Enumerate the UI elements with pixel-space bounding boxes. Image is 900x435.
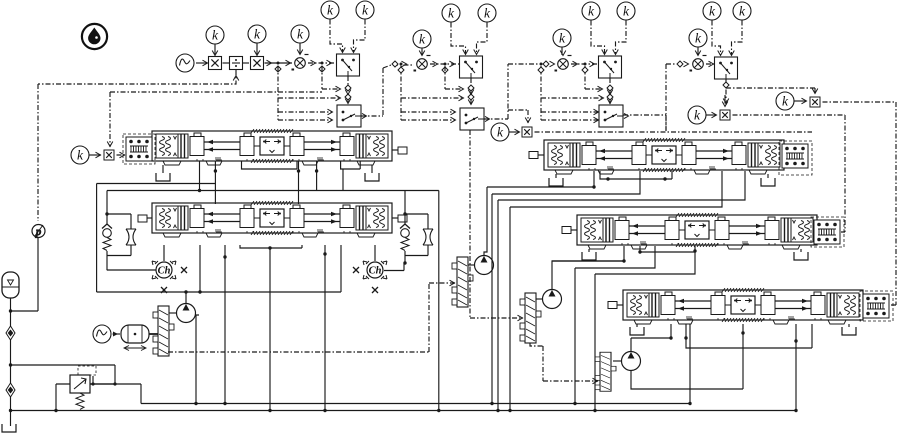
wire P3 delivery up xyxy=(552,261,624,290)
pump P4 xyxy=(622,352,641,371)
pump P3 xyxy=(543,290,562,309)
x mark Ch2 bottom xyxy=(372,287,378,293)
wire Ch1 top to bank2 xyxy=(163,245,165,261)
wire B2 output down to pump controls xyxy=(484,64,539,119)
selector C1 xyxy=(599,56,622,78)
wire bank5 suction x743 xyxy=(742,324,744,333)
wire P4 suction down xyxy=(631,333,743,389)
wire k5 to A1 xyxy=(354,20,366,53)
bus line 1 xyxy=(141,403,690,405)
wire orifice loop xyxy=(107,214,131,270)
multiplier X5 bank4 pilot xyxy=(720,110,730,120)
pilot dashed frame bank5 xyxy=(860,291,893,321)
gain k9 xyxy=(553,29,571,47)
wire xyxy=(243,62,250,64)
x mark Ch1 bottom xyxy=(161,287,167,293)
wire manifold3 to P3 xyxy=(536,298,543,300)
gain k8 xyxy=(478,4,496,22)
wire xyxy=(196,62,207,64)
net: MF3 to MF4 pilot xyxy=(530,343,598,381)
relief valve RV1 xyxy=(70,375,90,393)
net: supply to relief xyxy=(11,365,116,384)
net: tap B2 feed xyxy=(445,66,463,89)
wire k18 to X6 xyxy=(795,100,807,102)
gain k12 xyxy=(689,29,707,47)
wire manifold2 to P2 xyxy=(468,264,475,266)
pump P2 xyxy=(475,256,494,275)
wire bank1 portE to header B xyxy=(342,169,344,191)
summer S4 xyxy=(690,56,707,72)
net: tap C2 feed xyxy=(585,66,602,89)
net: X6 output to bank5 solenoid via right edge xyxy=(823,102,897,305)
multiplier X6 bank5 pilot xyxy=(810,97,820,107)
wire k2 to X2 xyxy=(256,44,258,55)
wire bank5 port down x796 xyxy=(795,324,797,411)
wire k10 to C1 xyxy=(591,21,605,55)
pilot dashed frame bank3 xyxy=(779,141,812,175)
wire bank5 right drain xyxy=(848,324,850,327)
wire bank1 portA to bank2 xyxy=(214,161,216,204)
bank2 right stub xyxy=(392,217,398,219)
bank5 left stub xyxy=(617,304,623,306)
x mark Ch2 left xyxy=(353,267,359,273)
wire bank5 left drain xyxy=(636,324,638,327)
net: return header B y190.5 xyxy=(107,191,439,215)
net: pump P1 delivery header y292 xyxy=(97,245,341,292)
coupling wire xyxy=(113,333,121,335)
gain k3 xyxy=(291,25,309,43)
wire bank4 right drain xyxy=(800,249,802,252)
wire manifold to P1 xyxy=(169,312,177,314)
load unit Ch2 xyxy=(363,261,387,279)
check valve CV2 xyxy=(6,383,15,397)
wire k9 to S3 xyxy=(561,48,563,56)
wire k17 to X5 xyxy=(707,114,717,116)
solenoid bank5 xyxy=(863,294,889,318)
wire bank5 port to P4 xyxy=(631,324,671,338)
selector B1 xyxy=(460,56,483,78)
wire bank4 port to P3 xyxy=(552,246,624,261)
wire P2 delivery up xyxy=(484,187,487,256)
wire into summer S2 xyxy=(383,65,414,68)
net: tap B1 feedback xyxy=(401,66,464,120)
wire bank1 left drain xyxy=(162,165,164,173)
pressure gauge PG xyxy=(32,225,45,238)
wire to gauge branch xyxy=(11,238,39,312)
bus line 2 xyxy=(11,410,797,412)
solenoid bank4 xyxy=(814,220,840,244)
orifice O2 xyxy=(423,229,433,245)
wire bank2 port down x225 xyxy=(224,245,226,404)
wire bank3 left drain xyxy=(555,174,557,178)
check valve CV4 pilot xyxy=(400,224,410,251)
wire k16 to X4 xyxy=(510,131,520,133)
wire C2 inputs xyxy=(541,112,598,120)
tank bank5 left xyxy=(630,327,644,335)
junction xyxy=(9,363,12,366)
check valve CV1 xyxy=(6,326,15,340)
wire C2 output to junction x666 xyxy=(623,64,676,131)
wire Ch2 top to bank2 xyxy=(374,245,376,261)
wire k7 to B1 xyxy=(451,23,466,55)
wire P1 suction down xyxy=(196,315,200,404)
net: divider feedback to gauge xyxy=(38,70,236,221)
tank bank5 right xyxy=(842,327,856,335)
wire bank5 port down x690 xyxy=(689,324,691,404)
wire X5 top input xyxy=(724,95,726,106)
gain k7 xyxy=(442,4,460,22)
wire X3 to solenoid V1 xyxy=(117,154,126,156)
solenoid bank3 xyxy=(782,144,808,168)
wire to Ch1 xyxy=(107,269,156,271)
wire C1 down to C2 xyxy=(609,78,611,104)
wire bank1 portB to bank2 xyxy=(298,161,300,204)
net: pilot to MF1 MF2 xyxy=(168,283,455,352)
wire manifold4 to P4 xyxy=(613,360,622,362)
selector C2 xyxy=(599,105,629,127)
bank1 right stub xyxy=(392,149,398,151)
wire bank2 mid bridge xyxy=(240,245,302,248)
junction xyxy=(9,409,12,412)
wire A2 output to chain B xyxy=(361,68,383,116)
net: tap C1 feedback xyxy=(541,66,604,120)
wire k13 to D1 xyxy=(712,21,721,56)
net: return header A y183.5 xyxy=(97,184,216,293)
selector B2 xyxy=(460,108,490,130)
wire bank2 right cap xyxy=(404,191,406,215)
valve bank 5 body xyxy=(623,288,863,324)
summer S2 xyxy=(414,56,431,72)
selector A2 xyxy=(337,105,367,127)
wire bank1 bridge right xyxy=(341,161,361,169)
x mark Ch1 right xyxy=(181,267,187,273)
wire bank3 port to P2 xyxy=(487,171,594,187)
net: relief out to bus1 xyxy=(90,384,141,404)
pilot dashed frame bank4 xyxy=(811,217,844,247)
wire bank2 port down x325 xyxy=(324,245,326,411)
gain k14 xyxy=(733,2,751,20)
wire k14 to D1 xyxy=(732,21,743,56)
wire header B down to bus xyxy=(438,191,440,411)
valve bank 4 body xyxy=(577,213,817,249)
divider D1 xyxy=(230,57,243,70)
wire S3 to selector C1 xyxy=(571,63,598,65)
motor drive sine source xyxy=(93,325,111,343)
net: X4 top feed xyxy=(508,110,528,123)
orifice O1 xyxy=(126,229,136,245)
tank bank3 right xyxy=(761,178,775,186)
solenoid bank1 xyxy=(126,137,152,161)
wire k1 to X1 xyxy=(214,45,216,55)
gain k2 xyxy=(248,25,266,43)
multiplier X4 bank3 pilot xyxy=(522,127,532,137)
selector A1 xyxy=(337,54,360,76)
wire bank2 port x200 xyxy=(199,245,201,292)
junction xyxy=(9,309,12,312)
tank bank3 left xyxy=(549,178,563,186)
wire bank4 port down x575 xyxy=(575,246,655,404)
wire k15 to X3 xyxy=(90,154,102,156)
wire bank3 port down long1 xyxy=(492,171,640,404)
wire bank4 left drain xyxy=(588,249,590,252)
wire k12 to S4 xyxy=(697,48,699,56)
net: y92 feedback line xyxy=(110,92,322,147)
load unit Ch1 xyxy=(152,261,176,279)
wire bank4 port down x595 xyxy=(595,246,695,411)
tank bank4 right xyxy=(794,252,808,260)
gain k17 bank4 xyxy=(688,106,706,124)
check valve CV3 pilot xyxy=(102,224,112,251)
wire with junctions xyxy=(265,62,293,64)
multiplier X2 xyxy=(251,57,264,70)
valve bank 1 body xyxy=(152,129,392,165)
wire B1 down to B2 xyxy=(470,78,472,106)
gain k13 xyxy=(703,2,721,20)
pilot dashed frame bank1 xyxy=(123,134,155,164)
gain k11 xyxy=(617,2,635,20)
tank bank1 right xyxy=(365,173,379,181)
wire k11 to C1 xyxy=(616,21,627,55)
net: X4 output to bank3 solenoid xyxy=(535,131,813,133)
wire bank3 right drain xyxy=(767,174,769,178)
manifold MF4 xyxy=(595,352,616,391)
multiplier X3 bank1 pilot xyxy=(104,150,114,160)
wire k6 to S2 xyxy=(421,49,423,56)
electric motor M1 xyxy=(121,325,149,351)
gain k1 xyxy=(206,26,224,44)
wire k4 to A1 xyxy=(330,20,343,53)
wire bank1 right drain xyxy=(371,165,373,173)
gain k10 xyxy=(582,2,600,20)
wire orifice2 loop xyxy=(405,214,428,263)
tank bank4 left xyxy=(582,252,596,260)
wire D1 output split xyxy=(726,79,815,107)
valve bank 2 body xyxy=(152,201,392,237)
wire S4 to selector D1 xyxy=(706,63,714,65)
wire P1 delivery up xyxy=(185,292,187,304)
wire bank2 port down x270 xyxy=(269,248,271,411)
summer S3 xyxy=(555,56,572,72)
summer S1 xyxy=(292,55,309,71)
gain k4 xyxy=(321,1,339,19)
manifold MF1 xyxy=(153,306,174,356)
selector D1 xyxy=(715,57,738,79)
wire bank3 bridge xyxy=(600,171,672,179)
wire bank1 portD to header B xyxy=(199,161,201,191)
sine source U1 xyxy=(176,54,194,72)
gain k18 bank5 xyxy=(776,92,794,110)
wire Ch2 right elbow xyxy=(384,263,404,271)
bank2 left stub xyxy=(146,217,152,219)
junction xyxy=(54,409,57,412)
wire k3 to S1 xyxy=(299,44,301,55)
wire bank5 cross line xyxy=(686,324,812,348)
wire bank3 port down long3 xyxy=(510,171,722,411)
pump P1 xyxy=(177,304,196,323)
wire S1 to selector A1 xyxy=(308,62,336,64)
gain k15 bank1 xyxy=(71,146,89,164)
bank3 left stub xyxy=(538,154,544,156)
wire P4 delivery up xyxy=(630,338,632,352)
bank4 left stub xyxy=(571,229,577,231)
gain k16 bank3 xyxy=(491,123,509,141)
oil drop logo xyxy=(82,24,107,49)
wire S2 to selector B1 xyxy=(430,63,459,65)
wire xyxy=(223,62,230,64)
wire accumulator down xyxy=(10,298,12,426)
manifold MF3 xyxy=(520,293,541,343)
multiplier X1 xyxy=(209,57,222,70)
wire Ch1 left stub xyxy=(106,269,108,271)
wire k8 to B1 xyxy=(477,23,488,55)
wire relief drain xyxy=(56,384,70,411)
wire bank3 port down long2 xyxy=(498,171,745,411)
net: pilot to MF3 xyxy=(470,130,523,318)
net: tap A1 feedback xyxy=(278,66,341,120)
wire bank1 bridge center xyxy=(242,161,298,169)
shaft xyxy=(149,333,158,335)
gain k5 xyxy=(356,1,374,19)
net: bank3 pilot junction xyxy=(665,115,667,131)
tank bank1 left xyxy=(156,173,170,181)
manifold MF2 xyxy=(452,257,473,307)
net: tap A2 feed xyxy=(322,66,340,89)
tank T0 xyxy=(2,424,16,432)
wire A1 down to A2 with branch xyxy=(347,76,349,103)
wire bank1 portC to header B xyxy=(316,161,318,191)
accumulator ACC xyxy=(2,272,19,298)
net: X5 output to bank4 solenoid xyxy=(733,115,846,232)
gain k6 xyxy=(413,30,431,48)
wire bank4 bridge xyxy=(640,246,695,252)
valve bank 3 body xyxy=(544,138,784,174)
